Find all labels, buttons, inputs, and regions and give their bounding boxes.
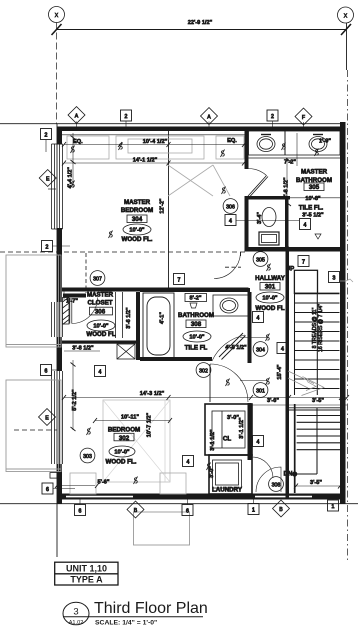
- svg-text:308: 308: [191, 321, 202, 328]
- dim texts top: [66, 138, 331, 486]
- svg-text:14'-3 1/2": 14'-3 1/2": [140, 391, 165, 397]
- svg-text:3'-1 1/2": 3'-1 1/2": [210, 429, 216, 451]
- grid line X left dashed: [56, 23, 58, 125]
- closet south wall: [62, 341, 140, 344]
- svg-text:TILE FL.: TILE FL.: [299, 205, 324, 212]
- svg-text:4'-5 1/2": 4'-5 1/2": [225, 345, 247, 351]
- svg-text:305: 305: [256, 258, 265, 264]
- svg-text:3: 3: [333, 276, 336, 282]
- washer: [213, 460, 242, 488]
- svg-text:4: 4: [257, 316, 260, 322]
- bathroom north wall: [140, 288, 250, 292]
- svg-text:DN: DN: [284, 471, 293, 478]
- shower head: [190, 303, 197, 308]
- svg-text:6: 6: [46, 487, 49, 493]
- svg-text:2: 2: [125, 114, 128, 120]
- unit box: [55, 562, 118, 585]
- top wall face projection line: [0, 123, 341, 125]
- hallway top door arc: [214, 252, 241, 279]
- room label master bathroom: [296, 169, 332, 219]
- svg-text:BEDROOM: BEDROOM: [108, 427, 140, 434]
- svg-text:WOOD FL: WOOD FL: [255, 305, 284, 312]
- svg-text:302: 302: [199, 369, 208, 375]
- diamond B bottom a: [127, 501, 144, 518]
- overall dimension line 22'-9 1/2": [52, 20, 352, 35]
- svg-text:2: 2: [45, 133, 48, 139]
- exterior wall right: [340, 122, 346, 504]
- svg-text:10'-7 1/2": 10'-7 1/2": [147, 412, 153, 437]
- notch bottom left wall: [50, 473, 57, 479]
- svg-text:4: 4: [304, 223, 307, 229]
- svg-text:6: 6: [186, 509, 189, 515]
- svg-text:F: F: [302, 115, 305, 121]
- dim lines misc: [57, 160, 347, 486]
- svg-text:MASTER: MASTER: [124, 199, 151, 206]
- svg-text:1'-7": 1'-7": [66, 299, 78, 305]
- 8'-2 dim box: [185, 294, 207, 302]
- svg-text:MASTER: MASTER: [87, 292, 114, 299]
- svg-text:10'-8": 10'-8": [305, 196, 321, 202]
- square3 leader squiggle: [340, 279, 353, 282]
- svg-text:3'-0": 3'-0": [227, 415, 239, 421]
- svg-text:A: A: [207, 115, 211, 121]
- bathtub: [143, 293, 174, 359]
- svg-text:8'-6 1/2": 8'-6 1/2": [284, 177, 290, 199]
- grid line X right vertical: [346, 23, 348, 70]
- headboard gray: [67, 136, 244, 196]
- exterior wall top: [57, 127, 341, 132]
- svg-text:3'-6 1/2": 3'-6 1/2": [126, 307, 132, 329]
- circle 304: [253, 342, 268, 357]
- svg-text:7: 7: [178, 278, 181, 284]
- square 3 right: [329, 272, 340, 283]
- svg-text:1'-9": 1'-9": [319, 139, 331, 145]
- diamond A mid: [201, 108, 218, 125]
- svg-text:EQ.: EQ.: [73, 139, 83, 145]
- furniture bedroom gray: [70, 473, 96, 494]
- svg-text:1: 1: [332, 504, 335, 510]
- circle 303: [80, 448, 95, 463]
- hall bottom door arc: [256, 467, 281, 492]
- stair top landing box: [294, 270, 317, 293]
- leader dashed 307: [85, 253, 87, 293]
- svg-text:3'-5": 3'-5": [312, 398, 324, 404]
- svg-text:HALLWAY: HALLWAY: [255, 275, 286, 282]
- circle 306: [223, 199, 238, 214]
- interior wall: master bath west: [245, 131, 249, 169]
- laundry room walls: [209, 455, 252, 494]
- svg-text:4'-1": 4'-1": [160, 312, 166, 324]
- square 6 bottom b: [182, 505, 193, 516]
- svg-text:4: 4: [281, 347, 284, 353]
- dashed ceiling line master bedroom: [0, 251, 245, 253]
- shelf line closet: [64, 350, 100, 352]
- master bedroom dim extension line vertical: [168, 128, 170, 292]
- hallway west wall: [248, 292, 252, 363]
- svg-text:Third Floor Plan: Third Floor Plan: [94, 600, 208, 617]
- svg-text:301: 301: [265, 284, 276, 291]
- svg-text:305: 305: [309, 184, 320, 191]
- svg-text:A: A: [75, 114, 79, 120]
- deck upper left gray: [6, 255, 61, 347]
- svg-text:B: B: [279, 507, 283, 513]
- master bedroom south wall: [62, 288, 249, 292]
- square 7 stair: [298, 256, 309, 267]
- svg-text:306: 306: [95, 309, 106, 316]
- svg-text:22'-9 1/2": 22'-9 1/2": [188, 20, 213, 26]
- svg-text:4: 4: [187, 460, 190, 466]
- bedroom ceiling outline gray: [103, 400, 170, 482]
- svg-text:2: 2: [46, 245, 49, 251]
- left exterior wall lower solid: [57, 242, 62, 302]
- diamond F: [295, 108, 312, 125]
- svg-text:3'-8 1/2": 3'-8 1/2": [72, 346, 94, 352]
- svg-text:3'-5 1/2": 3'-5 1/2": [302, 213, 324, 219]
- svg-text:B: B: [134, 508, 138, 514]
- svg-text:TILE FL: TILE FL: [185, 345, 208, 352]
- svg-text:BEDROOM: BEDROOM: [121, 207, 153, 214]
- diamond A left: [68, 107, 85, 124]
- svg-text:3'-5": 3'-5": [310, 480, 322, 486]
- svg-text:301: 301: [256, 389, 265, 395]
- master bath mid wall: [249, 196, 291, 200]
- stair lower flight treads: [297, 408, 342, 474]
- svg-text:3'-6": 3'-6": [267, 398, 279, 404]
- stair bottom dim line: [296, 485, 340, 487]
- stair guard rail lower: [294, 404, 296, 493]
- svg-text:304: 304: [132, 216, 143, 223]
- exterior wall left: [57, 127, 62, 145]
- svg-text:A1.02: A1.02: [69, 620, 84, 626]
- square 4 tags: [225, 215, 236, 226]
- svg-text:1: 1: [252, 508, 255, 514]
- deck lower left gray: [6, 380, 61, 472]
- square 2 left a: [41, 129, 52, 140]
- svg-text:UNIT 1,10: UNIT 1,10: [66, 564, 107, 574]
- svg-text:304: 304: [256, 348, 265, 354]
- square 6 left a: [41, 365, 52, 376]
- left wall window glazing bedroom: [52, 371, 63, 464]
- exterior wall bottom: [57, 494, 344, 500]
- toilet master bath: [259, 208, 279, 246]
- svg-text:3'-4": 3'-4": [257, 212, 263, 224]
- svg-text:10'-11": 10'-11": [121, 415, 139, 421]
- svg-text:CL: CL: [223, 436, 231, 443]
- circle 302: [196, 363, 211, 378]
- svg-text:303: 303: [83, 454, 92, 460]
- stair up arrow: [288, 371, 324, 396]
- dashed line to diamond E lower: [14, 429, 57, 431]
- room label bedroom: [106, 427, 141, 466]
- stairwell west wall: [286, 251, 290, 498]
- svg-text:EQ.: EQ.: [227, 138, 237, 144]
- left vertical page line: [56, 124, 58, 557]
- closet rod lines: [115, 292, 117, 338]
- square 1 bottom b: [328, 500, 339, 511]
- square 2 left b: [42, 241, 53, 252]
- svg-text:UP: UP: [286, 266, 295, 273]
- circle 307: [90, 271, 105, 286]
- svg-text:6: 6: [45, 369, 48, 375]
- square 6 bottom a: [75, 505, 86, 516]
- wall closet/bath divider: [136, 292, 140, 360]
- room label master closet: [86, 292, 115, 339]
- tag leader lines: [46, 121, 333, 505]
- grid bubble X right: [338, 7, 354, 23]
- svg-text:6: 6: [79, 509, 82, 515]
- svg-text:WOOD FL: WOOD FL: [86, 331, 115, 338]
- square 1 bottom a: [248, 504, 259, 515]
- room label master bedroom: [121, 199, 153, 243]
- square 2 top left grid: [121, 110, 132, 121]
- svg-text:7: 7: [302, 260, 305, 266]
- chase with X: [117, 344, 135, 359]
- svg-text:BATHROOM: BATHROOM: [178, 312, 214, 319]
- svg-text:15'-4": 15'-4": [277, 364, 283, 380]
- closet west hatched wall: [63, 297, 70, 325]
- svg-text:MASTER: MASTER: [301, 169, 328, 176]
- bottom wall face projection line: [0, 503, 358, 505]
- master bath vanity counter: [249, 131, 341, 158]
- diamond tags: [39, 107, 312, 518]
- diamond E left lower: [39, 409, 56, 426]
- stair landing edge: [289, 408, 343, 410]
- svg-text:16 RISERS @ 7 1/4": 16 RISERS @ 7 1/4": [318, 304, 324, 352]
- svg-text:WOOD FL.: WOOD FL.: [122, 236, 153, 243]
- closet door arc: [72, 298, 98, 324]
- left wall window glazing: [52, 144, 63, 229]
- svg-text:10'-0": 10'-0": [189, 335, 205, 341]
- window tag squares: [41, 110, 340, 516]
- dimension row master bedroom top: [64, 133, 297, 188]
- svg-text:10'-0": 10'-0": [114, 450, 130, 456]
- closet door leaf: [69, 298, 71, 324]
- svg-text:10'-0": 10'-0": [129, 228, 145, 234]
- svg-text:E: E: [46, 177, 50, 183]
- centerline symbols: [71, 143, 319, 485]
- svg-text:7'-2": 7'-2": [284, 160, 296, 166]
- svg-text:TYPE A: TYPE A: [70, 575, 103, 585]
- svg-text:4: 4: [257, 440, 260, 446]
- svg-text:307: 307: [93, 277, 102, 283]
- svg-text:2: 2: [271, 114, 274, 120]
- DN dot and line: [292, 471, 297, 476]
- bottom windows glazing: [66, 495, 312, 497]
- closet door jamb stub: [63, 294, 86, 298]
- laundry door arc: [252, 457, 273, 478]
- svg-text:LAUNDRY: LAUNDRY: [212, 487, 243, 494]
- hallway/stair dim line: [251, 404, 347, 406]
- left wall window glazing lower (master closet): [52, 302, 63, 337]
- circle 305: [253, 252, 268, 267]
- diamond E left upper: [39, 170, 56, 187]
- svg-text:10'-0": 10'-0": [262, 296, 278, 302]
- svg-text:CLOSET: CLOSET: [87, 300, 112, 307]
- svg-text:WOOD FL.: WOOD FL.: [106, 459, 137, 466]
- square 7 closet: [174, 274, 185, 285]
- svg-text:308: 308: [272, 483, 281, 489]
- bathroom door diagonal: [212, 333, 246, 361]
- drain triangle: [315, 234, 321, 239]
- svg-text:X: X: [344, 14, 348, 20]
- deck bottom center gray: [134, 512, 190, 545]
- bedroom closet CL: [205, 404, 252, 455]
- circle 301: [253, 383, 268, 398]
- svg-text:10'-0": 10'-0": [93, 324, 109, 330]
- square 6 left b: [42, 483, 53, 494]
- svg-text:4: 4: [99, 370, 102, 376]
- stair upper flight treads: [294, 293, 339, 395]
- svg-text:4'-4 1/2": 4'-4 1/2": [68, 167, 74, 189]
- door tag circles: [80, 199, 283, 492]
- svg-text:3: 3: [73, 607, 78, 618]
- svg-text:5'-6": 5'-6": [97, 480, 109, 486]
- bedroom door arc: [210, 364, 248, 402]
- svg-text:10'-4 1/2": 10'-4 1/2": [143, 139, 168, 145]
- bathroom south wall: [140, 357, 212, 361]
- svg-text:3'-1 1/2": 3'-1 1/2": [239, 417, 245, 439]
- circle 309: [269, 477, 284, 492]
- drawing title bubble: [63, 602, 89, 625]
- svg-text:SCALE: 1/4" = 1'-0": SCALE: 1/4" = 1'-0": [95, 619, 157, 626]
- title block: [55, 562, 208, 626]
- square 2 top mid: [267, 110, 278, 121]
- room label hallway: [255, 266, 294, 478]
- room label bathroom: [178, 312, 214, 352]
- svg-text:E: E: [45, 416, 49, 422]
- diamond B bottom b: [273, 500, 290, 517]
- sink 1: [257, 137, 275, 152]
- door master bath swing: [248, 169, 268, 198]
- dim tick slashes: [55, 136, 349, 489]
- grid bubble X left: [49, 7, 65, 23]
- svg-text:12'-2": 12'-2": [160, 198, 166, 214]
- svg-text:4: 4: [229, 219, 232, 225]
- svg-text:306: 306: [226, 205, 235, 211]
- bathroom vanity: [213, 295, 250, 316]
- svg-text:14'-1 1/2": 14'-1 1/2": [133, 158, 158, 164]
- master bath south wall: [245, 247, 342, 252]
- sink 2: [309, 137, 327, 152]
- svg-text:8'-2": 8'-2": [189, 296, 201, 302]
- svg-text:X: X: [55, 13, 59, 19]
